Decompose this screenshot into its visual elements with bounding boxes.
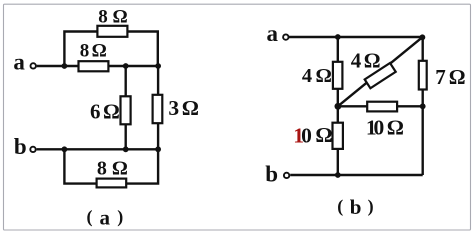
resistor R9 10ohm (middle horizontal) bbox=[367, 102, 397, 112]
terminal b (open circle) bbox=[30, 147, 35, 152]
junction node on line a (right) bbox=[155, 63, 161, 69]
svg-text:b: b bbox=[265, 161, 278, 186]
wire: diagonal branch bbox=[338, 37, 423, 106]
svg-text:Ω: Ω bbox=[315, 123, 332, 147]
resistor R1 8ohm (top branch) bbox=[97, 26, 127, 37]
resistor R10 10ohm (lower vertical) bbox=[333, 123, 343, 149]
caption (b) bbox=[337, 195, 373, 219]
wire: bottom 8-ohm loop bbox=[64, 149, 158, 183]
wire: node b to right along bottom line bbox=[290, 174, 423, 176]
resistor R2 8ohm (line a) bbox=[79, 61, 109, 71]
resistor R8 7ohm (right vertical) bbox=[419, 61, 427, 90]
svg-text:6 Ω: 6 Ω bbox=[90, 99, 119, 123]
svg-text:a: a bbox=[13, 50, 25, 75]
svg-text:3 Ω: 3 Ω bbox=[168, 96, 198, 120]
svg-text:): ) bbox=[117, 207, 123, 228]
svg-text:8 Ω: 8 Ω bbox=[97, 158, 128, 180]
junction node on line a (left) bbox=[62, 63, 68, 69]
svg-text:): ) bbox=[368, 196, 374, 217]
svg-text:10: 10 bbox=[366, 116, 384, 140]
wire: 3-ohm branch vertical bbox=[157, 66, 159, 149]
junction node on line b (left) bbox=[62, 146, 68, 152]
wire: top parallel branch (up, across, down) bbox=[64, 32, 157, 67]
svg-text:10: 10 bbox=[293, 124, 311, 148]
caption (a) bbox=[87, 205, 124, 229]
resistor R7 4ohm (diagonal) bbox=[365, 63, 396, 88]
svg-text:8 Ω: 8 Ω bbox=[98, 7, 127, 28]
wire: left vertical (4-ohm branch) bbox=[337, 37, 339, 106]
svg-text:8 Ω: 8 Ω bbox=[80, 41, 107, 62]
terminal a (open circle) bbox=[31, 63, 36, 68]
wire: right vertical (7-ohm branch) bbox=[422, 37, 424, 175]
wire: middle horizontal (10-ohm) bbox=[338, 105, 423, 107]
svg-text:a: a bbox=[267, 21, 279, 46]
svg-text:4 Ω: 4 Ω bbox=[351, 48, 380, 72]
wire: node a to right along line a bbox=[37, 65, 158, 67]
junction node top right corner bbox=[420, 34, 426, 40]
terminal a (open circle) bbox=[283, 34, 288, 39]
svg-text:(: ( bbox=[87, 207, 93, 228]
junction node top line (left) bbox=[335, 34, 341, 40]
resistor R4 3ohm (vertical) bbox=[153, 95, 163, 123]
svg-text:b: b bbox=[14, 134, 27, 159]
junction node on line b (right) bbox=[155, 146, 161, 152]
junction node on line b (6-ohm tap) bbox=[123, 146, 129, 152]
svg-text:7 Ω: 7 Ω bbox=[435, 65, 465, 89]
wire: 6-ohm branch vertical bbox=[124, 66, 126, 149]
junction node bottom line bbox=[335, 172, 341, 178]
junction node middle right bbox=[420, 103, 426, 109]
junction node centre bbox=[335, 103, 342, 110]
svg-text:4 Ω: 4 Ω bbox=[302, 65, 332, 87]
resistor R6 4ohm (left vertical) bbox=[333, 62, 343, 89]
resistor R3 6ohm (vertical) bbox=[121, 96, 131, 124]
junction node on line a (6-ohm tap) bbox=[123, 63, 129, 69]
svg-text:(: ( bbox=[337, 196, 343, 217]
svg-text:b: b bbox=[350, 195, 362, 219]
wire: node b to right along line b bbox=[37, 148, 159, 150]
svg-text:Ω: Ω bbox=[387, 115, 404, 139]
terminal b (open circle) bbox=[284, 173, 289, 178]
resistor R5 8ohm (bottom loop) bbox=[97, 179, 127, 188]
wire: lower vertical (10-ohm branch) bbox=[337, 106, 339, 175]
svg-text:a: a bbox=[100, 205, 111, 229]
wire: node a to right along top line bbox=[289, 36, 423, 38]
